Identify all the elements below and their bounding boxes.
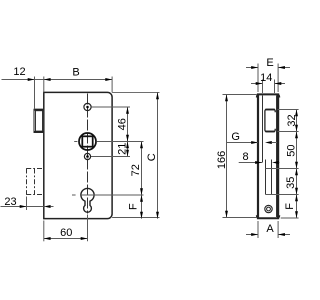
arrow 8 right counterpart (272, 161, 279, 164)
arrow 32 top (295, 110, 298, 117)
arrow 166 bottom (225, 211, 228, 218)
svg-text:50: 50 (286, 144, 298, 156)
vertical centerline front view (87, 94, 89, 214)
dashed counter box top line (26, 168, 43, 170)
arrow 46 top (126, 107, 129, 114)
arrow 21 top (126, 142, 129, 149)
centerline tick left of cylinder (72, 194, 76, 196)
arrow B right (105, 78, 112, 81)
lock case front view body (44, 92, 112, 218)
recess box in side view (265, 109, 275, 131)
arrow B left (44, 78, 51, 81)
arrow 32 bottom (295, 125, 298, 132)
arrow 72 bottom (140, 188, 143, 195)
svg-text:166: 166 (216, 151, 228, 169)
arrow C top (156, 92, 159, 99)
recess box thick bottom bar (265, 130, 275, 132)
extension line 12 left (box face) (34, 77, 36, 110)
extension line from top hole (92, 106, 131, 108)
dimension line G (227, 142, 258, 144)
svg-text:C: C (146, 153, 158, 161)
dimension line 14 right part (275, 83, 286, 85)
arrow 21 bottom (126, 150, 129, 157)
top small hole (84, 103, 91, 110)
arrow F front top (140, 195, 143, 202)
follower hole circle (79, 133, 96, 150)
side view faceplate back line (262, 96, 264, 163)
tail line right of G arrows (272, 142, 277, 144)
slot top line extending to 35 (266, 168, 299, 170)
svg-text:60: 60 (60, 227, 72, 239)
faceplate box inner wall (36, 111, 43, 131)
arrow 50 top (295, 132, 298, 139)
recess box thick top bar (265, 109, 275, 111)
dashed counter box bottom line (26, 194, 43, 196)
arrow 50 bottom (295, 162, 298, 169)
screw hole outer circle (265, 205, 272, 212)
tail line right of 8 arrows (278, 162, 281, 164)
dimension line 8 (239, 162, 262, 164)
arrow F front bottom (140, 212, 143, 219)
chain slot left wall (265, 160, 267, 195)
svg-text:B: B (72, 67, 79, 79)
dimension line C (157, 92, 159, 218)
extension line below dashed box (26, 197, 28, 211)
svg-text:F: F (127, 203, 139, 210)
extension centerline below body (87, 215, 89, 242)
faceplate box thick bottom bar (34, 131, 44, 133)
arrow 14 left (256, 82, 263, 85)
extension line A left (257, 221, 259, 238)
dimension line A left part (246, 234, 258, 236)
arrow A left (251, 233, 258, 236)
centerline tick left of follower (74, 141, 77, 143)
side view bottom cap (257, 215, 279, 218)
dimension line 23 (1, 206, 44, 208)
tail line right of 23 arrow (51, 206, 54, 208)
extension line body left edge below (43, 221, 45, 242)
svg-text:21: 21 (116, 143, 128, 155)
side view top cap (257, 94, 279, 97)
arrow G (251, 141, 258, 144)
dimension line E right part (278, 67, 290, 69)
extension line E left (257, 64, 259, 93)
lower small hole (84, 153, 90, 159)
extension line side bottom to F (281, 217, 299, 219)
dimension line 12 and B (2, 79, 113, 81)
arrow 166 top (225, 95, 228, 102)
svg-text:E: E (266, 57, 273, 69)
dashed counter box left side (26, 169, 28, 195)
dimension line 72 F (141, 142, 143, 219)
extension line 166 bottom (223, 217, 257, 219)
faceplate box thick top bar (34, 109, 44, 111)
arrow 8 left (255, 161, 262, 164)
extension line from cylinder center (81, 194, 143, 196)
arrow 60 left (44, 237, 51, 240)
dimension line E left part (246, 67, 258, 69)
arrow 12 left (28, 78, 35, 81)
arrow F side top (295, 195, 298, 202)
extension line recess bottom to 32 (278, 131, 299, 133)
extension line from lower small hole (91, 156, 130, 158)
svg-text:F: F (284, 203, 296, 210)
slot bottom line extending to F (266, 194, 299, 196)
lower small hole center dot (86, 155, 89, 158)
side view right face (277, 93, 279, 219)
arrow E left (251, 66, 258, 69)
dimension line 35 F side (296, 169, 298, 219)
chain slot right wall (271, 160, 273, 195)
svg-text:8: 8 (243, 151, 249, 163)
extension line 14 left (262, 80, 264, 94)
dimension line 46 21 (127, 107, 129, 157)
svg-text:12: 12 (13, 66, 25, 78)
arrow E right (278, 66, 285, 69)
top edge extension line for C (112, 91, 159, 93)
extension line from follower center (97, 141, 144, 143)
extension line 166 top (223, 94, 257, 96)
faceplate box outer (34, 109, 44, 132)
svg-text:G: G (231, 131, 240, 143)
arrow 23 left (20, 205, 27, 208)
extension line body left edge above (43, 77, 45, 93)
dimension line 60 (44, 238, 88, 240)
dimension line 32 50 (296, 110, 298, 169)
svg-text:72: 72 (130, 164, 142, 176)
extension line recess top to 32 (278, 109, 299, 111)
svg-text:46: 46 (116, 118, 128, 130)
arrow 23 right (44, 205, 51, 208)
extension line E right (277, 64, 279, 93)
svg-text:32: 32 (286, 114, 298, 126)
extension line body right edge above (111, 77, 113, 93)
bottom edge extension line for C (112, 217, 159, 219)
dimension line A right part (278, 234, 290, 236)
arrow F side bottom (295, 211, 298, 218)
arrow 72 top (140, 142, 143, 149)
dimension line 166 (226, 95, 228, 218)
side view left face (257, 93, 259, 219)
arrow G right counterpart (265, 141, 272, 144)
arrow 46 bottom (126, 135, 129, 142)
svg-text:14: 14 (260, 72, 272, 84)
svg-text:23: 23 (4, 196, 16, 208)
arrow 14 right (275, 82, 282, 85)
top small hole center dot (86, 106, 89, 109)
extension line 14 right (274, 80, 276, 94)
arrow 35 top (295, 169, 298, 176)
side view inner right line (276, 96, 278, 218)
extension line A right (277, 221, 279, 238)
arrow A right (278, 233, 285, 236)
dimension line 14 left part (251, 83, 263, 85)
svg-text:A: A (266, 223, 274, 235)
arrow 60 right (81, 237, 88, 240)
dashed counter box right side (34, 169, 36, 195)
euro profile cylinder hole (81, 188, 94, 212)
follower square spindle hole (82, 136, 92, 146)
svg-text:35: 35 (285, 177, 297, 189)
screw hole inner circle (267, 207, 271, 211)
arrow 35 bottom (295, 188, 298, 195)
arrow C bottom (156, 212, 159, 219)
